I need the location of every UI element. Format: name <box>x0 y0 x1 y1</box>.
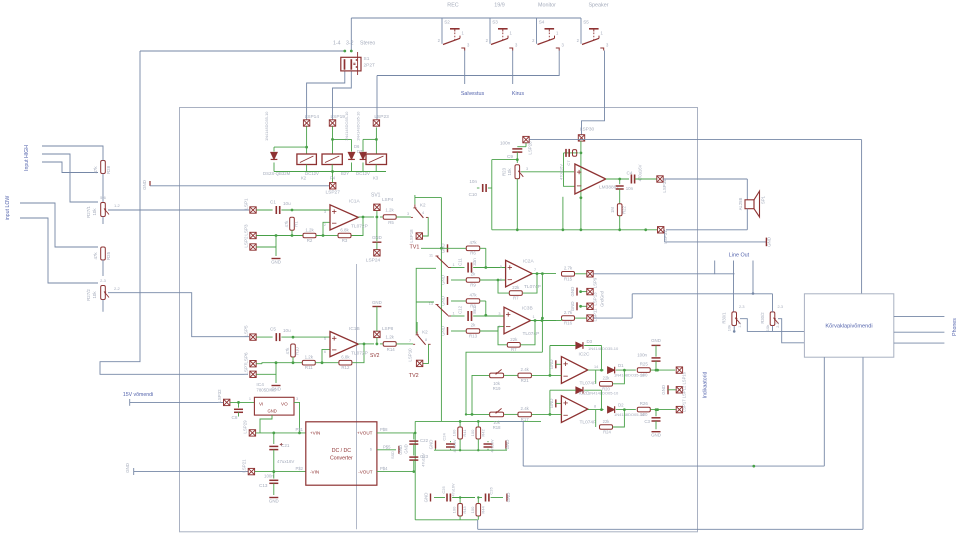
svg-text:19/9: 19/9 <box>494 3 505 9</box>
svg-text:K2: K2 <box>420 202 426 207</box>
svg-text:R18: R18 <box>493 425 501 430</box>
svg-text:7: 7 <box>409 339 411 343</box>
svg-text:2.7k: 2.7k <box>564 266 573 271</box>
svg-text:1-4: 1-4 <box>333 41 341 47</box>
svg-text:100: 100 <box>470 429 475 436</box>
svg-text:22k: 22k <box>510 337 518 342</box>
svg-text:10k: 10k <box>493 381 501 386</box>
svg-text:LSP1: LSP1 <box>244 198 249 210</box>
svg-text:LSP29: LSP29 <box>243 420 248 434</box>
svg-text:LSP13: LSP13 <box>593 292 598 306</box>
svg-text:DC / DC: DC / DC <box>332 448 352 454</box>
svg-text:IC2A: IC2A <box>523 259 534 265</box>
svg-text:3: 3 <box>324 210 326 214</box>
svg-text:100n: 100n <box>637 352 647 357</box>
svg-text:GND: GND <box>651 433 661 438</box>
svg-text:R24: R24 <box>603 430 611 435</box>
svg-text:R19: R19 <box>493 386 501 391</box>
svg-text:R25: R25 <box>640 362 649 367</box>
svg-text:TV1: TV1 <box>410 245 420 251</box>
svg-text:1.2k: 1.2k <box>305 355 314 360</box>
svg-text:10n: 10n <box>469 179 477 184</box>
svg-text:1N4148DO05-10: 1N4148DO05-10 <box>588 391 619 396</box>
svg-text:14: 14 <box>594 365 598 369</box>
svg-text:SP1: SP1 <box>761 195 766 204</box>
svg-text:100: 100 <box>452 429 457 436</box>
svg-text:LSP3: LSP3 <box>244 224 249 236</box>
svg-text:5-6: 5-6 <box>100 195 107 200</box>
svg-text:C9: C9 <box>507 154 513 159</box>
svg-text:47u16V: 47u16V <box>453 439 457 453</box>
svg-text:GND: GND <box>125 463 130 473</box>
svg-text:3: 3 <box>526 167 528 171</box>
svg-text:DC12V: DC12V <box>356 171 370 176</box>
svg-text:LSP7: LSP7 <box>244 363 249 375</box>
svg-text:GND: GND <box>441 275 446 285</box>
svg-text:Indikaatorid: Indikaatorid <box>703 371 709 398</box>
svg-text:2k: 2k <box>471 323 476 328</box>
svg-text:10k: 10k <box>507 168 512 176</box>
svg-text:GND: GND <box>398 445 403 455</box>
svg-text:13: 13 <box>429 302 433 306</box>
svg-text:47k: 47k <box>93 252 98 260</box>
svg-text:10k: 10k <box>765 325 770 331</box>
svg-text:R42: R42 <box>480 429 485 437</box>
svg-text:C24: C24 <box>442 433 447 441</box>
svg-text:S4: S4 <box>539 20 545 25</box>
svg-text:100: 100 <box>640 412 648 417</box>
svg-text:IC2D: IC2D <box>579 391 590 397</box>
svg-text:10k: 10k <box>92 291 97 299</box>
svg-text:1: 1 <box>453 263 455 267</box>
svg-text:11: 11 <box>429 254 433 258</box>
svg-text:R7: R7 <box>511 347 517 352</box>
svg-text:LSP5: LSP5 <box>244 325 249 337</box>
svg-text:22k: 22k <box>512 285 520 290</box>
svg-text:GND: GND <box>142 180 147 190</box>
svg-text:R11: R11 <box>305 365 313 370</box>
svg-text:LSP17 LSP12 LSP16: LSP17 LSP12 LSP16 <box>682 371 687 412</box>
svg-text:C21: C21 <box>281 443 290 448</box>
svg-text:S1: S1 <box>364 56 370 62</box>
svg-text:VI: VI <box>259 402 263 407</box>
svg-text:R30/2: R30/2 <box>760 312 765 324</box>
svg-text:2-3: 2-3 <box>778 305 784 309</box>
svg-text:47ux16V: 47ux16V <box>277 459 294 464</box>
svg-text:GND: GND <box>271 260 281 265</box>
svg-text:C3: C3 <box>644 419 650 424</box>
svg-text:R1: R1 <box>294 221 299 227</box>
svg-text:47u16V: 47u16V <box>421 453 426 467</box>
svg-text:47k: 47k <box>93 166 98 174</box>
svg-text:K2: K2 <box>301 176 307 181</box>
svg-text:GndGnd: GndGnd <box>600 290 605 307</box>
svg-text:P4: P4 <box>330 176 336 181</box>
svg-text:B2Y: B2Y <box>341 171 349 176</box>
svg-text:-VIN: -VIN <box>310 469 319 474</box>
svg-text:-VOUT: -VOUT <box>358 469 372 474</box>
svg-text:4: 4 <box>422 211 424 215</box>
svg-text:R28: R28 <box>106 165 111 174</box>
svg-text:R7: R7 <box>513 296 519 301</box>
svg-text:2-3: 2-3 <box>100 278 107 283</box>
svg-text:C1: C1 <box>270 200 276 205</box>
svg-text:C11: C11 <box>458 258 463 266</box>
svg-text:10k: 10k <box>727 325 732 331</box>
svg-text:LSP32: LSP32 <box>217 389 222 403</box>
svg-text:P$2: P$2 <box>296 466 304 471</box>
svg-text:3: 3 <box>296 397 298 401</box>
svg-text:LSP34: LSP34 <box>662 179 667 193</box>
svg-text:2-2: 2-2 <box>776 322 780 328</box>
svg-text:5: 5 <box>324 337 326 341</box>
svg-text:1N4148DO35-10: 1N4148DO35-10 <box>344 111 349 141</box>
svg-text:LSP26: LSP26 <box>528 141 533 155</box>
svg-text:10k: 10k <box>493 420 501 425</box>
svg-text:R15: R15 <box>564 276 573 281</box>
svg-text:22k: 22k <box>603 376 611 381</box>
svg-text:GND: GND <box>424 493 429 503</box>
svg-text:R26: R26 <box>640 401 649 406</box>
svg-text:TL072P: TL072P <box>351 224 368 230</box>
svg-text:Monitor: Monitor <box>538 3 556 9</box>
svg-text:8: 8 <box>594 405 596 409</box>
svg-text:K3: K3 <box>373 176 379 181</box>
svg-text:R13: R13 <box>469 334 478 339</box>
svg-text:1.2k: 1.2k <box>386 334 395 339</box>
svg-text:input LOW: input LOW <box>5 196 11 221</box>
svg-text:+VIN: +VIN <box>310 431 320 436</box>
svg-text:C10: C10 <box>469 192 478 197</box>
svg-text:R10: R10 <box>295 346 300 354</box>
svg-text:IC1B: IC1B <box>349 326 360 332</box>
svg-text:LSP31: LSP31 <box>663 230 668 244</box>
svg-text:2: 2 <box>498 325 500 329</box>
svg-text:6: 6 <box>500 278 502 282</box>
svg-text:SSD: SSD <box>391 451 395 459</box>
svg-text:2.7k: 2.7k <box>564 310 573 315</box>
svg-text:TL074P: TL074P <box>524 284 541 290</box>
svg-text:15V võmendi: 15V võmendi <box>123 392 153 398</box>
svg-text:P$8: P$8 <box>380 427 388 432</box>
svg-text:TL072P: TL072P <box>351 351 368 357</box>
svg-text:GND: GND <box>549 359 554 369</box>
svg-text:1.2k: 1.2k <box>385 208 394 213</box>
svg-text:R3: R3 <box>342 238 348 243</box>
svg-text:GND: GND <box>661 385 666 395</box>
svg-text:Salvestus: Salvestus <box>461 91 485 97</box>
svg-text:D3: D3 <box>587 339 593 344</box>
svg-text:GND: GND <box>372 235 382 240</box>
svg-text:R21: R21 <box>521 378 530 383</box>
svg-text:3-2: 3-2 <box>346 41 354 47</box>
svg-text:10u: 10u <box>283 201 291 206</box>
svg-text:LSP27: LSP27 <box>325 190 340 196</box>
svg-text:7: 7 <box>534 268 536 272</box>
svg-text:GND: GND <box>767 237 772 247</box>
svg-text:R2: R2 <box>307 238 313 243</box>
svg-text:1N4148DO35-10: 1N4148DO35-10 <box>588 346 619 351</box>
svg-text:100: 100 <box>640 373 648 378</box>
svg-text:S5: S5 <box>583 20 589 25</box>
svg-text:S2: S2 <box>444 20 450 25</box>
svg-text:TV2: TV2 <box>409 373 419 379</box>
svg-text:LSP30: LSP30 <box>580 127 595 133</box>
svg-text:22k: 22k <box>603 419 611 424</box>
svg-text:P$1: P$1 <box>296 427 304 432</box>
svg-text:R22: R22 <box>622 205 627 213</box>
svg-text:R44: R44 <box>480 506 485 514</box>
svg-text:D1: D1 <box>618 363 624 368</box>
svg-text:P$4: P$4 <box>380 466 388 471</box>
svg-text:47k: 47k <box>469 240 477 245</box>
svg-text:33n: 33n <box>472 258 477 266</box>
svg-text:47u16V: 47u16V <box>452 483 456 497</box>
svg-text:5: 5 <box>500 265 502 269</box>
svg-text:10n: 10n <box>626 186 634 191</box>
svg-text:3: 3 <box>498 312 500 316</box>
svg-text:R41: R41 <box>462 429 467 437</box>
svg-text:GND: GND <box>570 287 575 297</box>
svg-text:TL074P: TL074P <box>580 419 597 425</box>
svg-text:8: 8 <box>425 338 427 342</box>
svg-text:1: 1 <box>453 312 455 316</box>
svg-text:1N4148DO35-10: 1N4148DO35-10 <box>264 111 269 141</box>
svg-text:GND: GND <box>372 300 382 305</box>
svg-text:Phones: Phones <box>952 318 958 336</box>
svg-text:1.2k: 1.2k <box>305 228 314 233</box>
svg-text:Stereo: Stereo <box>360 41 375 47</box>
svg-text:R14: R14 <box>387 347 396 352</box>
svg-text:6.8k: 6.8k <box>340 228 349 233</box>
svg-text:D7: D7 <box>357 149 363 154</box>
svg-text:6: 6 <box>324 350 326 354</box>
svg-text:DC12V: DC12V <box>305 171 319 176</box>
svg-text:100n: 100n <box>500 141 511 146</box>
svg-text:7805DMS: 7805DMS <box>256 388 276 393</box>
svg-text:R9: R9 <box>470 283 476 288</box>
svg-text:Converter: Converter <box>330 456 353 462</box>
svg-text:K2: K2 <box>422 329 428 334</box>
svg-text:1: 1 <box>249 397 251 401</box>
svg-text:47k: 47k <box>284 220 289 228</box>
svg-text:IC1A: IC1A <box>349 199 360 205</box>
svg-text:1-2: 1-2 <box>114 203 121 208</box>
svg-text:VO: VO <box>281 402 288 407</box>
svg-text:GND: GND <box>404 444 409 453</box>
svg-text:C5: C5 <box>270 327 276 332</box>
svg-text:P$5: P$5 <box>383 445 391 450</box>
svg-text:1: 1 <box>533 315 535 319</box>
svg-text:Input HIGH: Input HIGH <box>24 145 30 171</box>
svg-text:LSP18: LSP18 <box>409 229 414 243</box>
svg-text:10u: 10u <box>283 328 291 333</box>
svg-text:R17: R17 <box>521 417 530 422</box>
svg-text:GND: GND <box>429 440 434 450</box>
svg-text:100: 100 <box>452 506 457 513</box>
svg-text:C8: C8 <box>232 415 238 420</box>
svg-text:LSP9: LSP9 <box>593 277 598 288</box>
svg-text:TL074P: TL074P <box>580 380 597 386</box>
svg-text:LSP6: LSP6 <box>244 352 249 364</box>
svg-text:LSP4: LSP4 <box>382 197 394 202</box>
svg-text:2: 2 <box>324 223 326 227</box>
svg-text:IC3B: IC3B <box>522 306 533 312</box>
svg-text:2k: 2k <box>471 272 476 277</box>
svg-text:100n: 100n <box>264 474 274 479</box>
svg-text:LSP8: LSP8 <box>382 326 394 331</box>
svg-text:LSP21: LSP21 <box>242 459 247 473</box>
svg-text:6.8k: 6.8k <box>341 355 350 360</box>
svg-text:Speaker: Speaker <box>588 3 608 9</box>
svg-text:GND: GND <box>651 338 661 343</box>
svg-text:SV2: SV2 <box>370 353 380 359</box>
svg-text:2.4k: 2.4k <box>521 406 530 411</box>
svg-text:GND: GND <box>441 296 446 306</box>
svg-text:R27/1: R27/1 <box>86 206 91 218</box>
svg-text:TL074P: TL074P <box>523 331 540 337</box>
svg-text:Kirus: Kirus <box>512 91 525 97</box>
svg-text:C13: C13 <box>259 483 268 488</box>
svg-text:2-2: 2-2 <box>114 286 121 291</box>
svg-text:GND: GND <box>269 499 279 504</box>
svg-text:LSP24: LSP24 <box>366 258 381 264</box>
svg-text:2P2T: 2P2T <box>364 63 376 69</box>
svg-text:R6: R6 <box>470 251 476 256</box>
svg-text:1-2: 1-2 <box>738 322 742 328</box>
svg-text:R43: R43 <box>462 506 467 514</box>
svg-text:Kõrvaklapivõmendi: Kõrvaklapivõmendi <box>825 324 872 330</box>
svg-text:470u16V: 470u16V <box>559 164 564 180</box>
svg-text:C22: C22 <box>420 438 429 443</box>
svg-text:R23: R23 <box>502 167 507 176</box>
svg-text:GND: GND <box>505 440 510 450</box>
svg-text:2.4k: 2.4k <box>521 367 530 372</box>
svg-text:1M: 1M <box>610 207 615 213</box>
svg-text:GND: GND <box>268 409 277 414</box>
svg-text:R30/1: R30/1 <box>722 312 727 324</box>
svg-text:LSP23: LSP23 <box>374 114 389 120</box>
svg-text:100: 100 <box>470 506 475 513</box>
svg-text:GND: GND <box>506 493 511 503</box>
svg-text:LSP2: LSP2 <box>244 236 249 248</box>
svg-text:C4: C4 <box>627 171 633 176</box>
svg-text:C12: C12 <box>458 305 463 314</box>
svg-text:47u16V: 47u16V <box>491 439 495 453</box>
svg-text:1N4148DO35-10: 1N4148DO35-10 <box>356 111 361 141</box>
svg-text:GND: GND <box>549 399 554 409</box>
svg-text:Line Out: Line Out <box>729 253 750 259</box>
svg-text:C25: C25 <box>441 486 446 494</box>
svg-text:R25: R25 <box>106 251 111 260</box>
svg-text:D2: D2 <box>618 402 624 407</box>
svg-text:IC2C: IC2C <box>579 351 590 357</box>
svg-text:AL25B: AL25B <box>738 198 743 211</box>
svg-text:C26: C26 <box>489 487 494 495</box>
svg-text:8n2: 8n2 <box>472 306 477 314</box>
svg-text:47k: 47k <box>469 293 477 298</box>
svg-text:+VOUT: +VOUT <box>357 431 373 436</box>
svg-text:DS2S-QB32M: DS2S-QB32M <box>263 171 291 176</box>
svg-text:REC: REC <box>447 3 458 9</box>
svg-text:LSP14: LSP14 <box>305 114 320 120</box>
svg-text:R16: R16 <box>564 321 573 326</box>
svg-text:LSP10: LSP10 <box>408 348 413 362</box>
svg-text:R27/2: R27/2 <box>86 289 91 301</box>
svg-text:R5: R5 <box>388 220 394 225</box>
svg-text:R12: R12 <box>341 365 350 370</box>
svg-text:GND: GND <box>441 326 446 336</box>
svg-text:3: 3 <box>407 212 409 216</box>
svg-text:47k: 47k <box>285 347 290 355</box>
svg-text:2-3: 2-3 <box>739 305 745 309</box>
svg-text:SV1: SV1 <box>371 193 381 199</box>
svg-text:S3: S3 <box>492 20 498 25</box>
svg-text:10k: 10k <box>92 208 97 216</box>
svg-text:C7: C7 <box>566 160 571 166</box>
